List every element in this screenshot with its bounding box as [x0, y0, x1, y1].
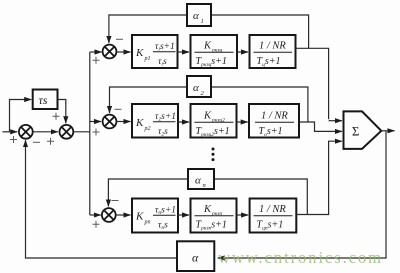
wire: K2 to RK2 — [178, 121, 189, 123]
row1 block3 text: 1/NR over T s+1 — [254, 41, 293, 68]
svg-text:1 / NR: 1 / NR — [259, 41, 286, 52]
svg-text:1: 1 — [201, 18, 204, 25]
wire: distribution vertical bus — [89, 52, 91, 215]
svg-text:р2: р2 — [144, 126, 151, 132]
wire: S1 output to distribution node — [73, 131, 90, 133]
row2 block2 text — [195, 111, 234, 138]
svg-text:K: K — [203, 41, 212, 52]
block K_pn PI controller — [132, 199, 178, 233]
svg-text:τ2s+1: τ2s+1 — [155, 112, 176, 123]
wire: NRn output right then up into sigma — [296, 141, 342, 214]
sign - at S0 bottom — [33, 141, 40, 143]
svg-text:α: α — [192, 251, 199, 265]
svg-text:K: K — [135, 47, 144, 59]
svg-text:Tцs+1: Tцs+1 — [257, 56, 281, 68]
wire: alpha output left then up into S0 — [26, 140, 178, 258]
wire: alpha2 output to R2 summer top — [110, 87, 188, 113]
node dots (vertical ellipsis) — [212, 148, 215, 162]
wire: Kn to RKn — [178, 214, 189, 216]
svg-text:τis: τis — [158, 57, 167, 68]
wire: NR1 output to down corner — [296, 48, 329, 119]
block 1/NR row3 — [250, 199, 297, 233]
svg-text:1 / NR: 1 / NR — [259, 204, 286, 215]
sign + at R3 left — [93, 221, 100, 228]
sign labels (drawn) — [10, 39, 123, 228]
svg-text:Tркзцs+1: Tркзцs+1 — [196, 56, 227, 68]
sign - at R3 top — [112, 200, 119, 202]
wire: RKn to NRn — [237, 214, 249, 216]
wire: alpha1 output to R1 summer top — [109, 15, 187, 43]
wire: NR2 output step down into sigma — [299, 122, 342, 131]
row1 block2 text: K_rkz/(T_rkz s+1) — [195, 41, 234, 68]
svg-text:2: 2 — [201, 90, 205, 97]
wire: RK2 to NR2 — [237, 121, 248, 123]
wire: row1 feedback tap up to alpha1 — [211, 15, 309, 48]
sign - at R1 top — [116, 38, 123, 40]
wire: main input into summer S0 — [3, 131, 18, 133]
block K_rk2 lag — [191, 104, 237, 138]
block alpha1 — [187, 4, 211, 26]
sign + at S1 input — [47, 138, 54, 145]
svg-text:рn: рn — [144, 220, 151, 226]
block K_p2 PI controller — [132, 104, 178, 138]
svg-text:τns+1: τns+1 — [155, 206, 176, 217]
summer S1 (circle with X) — [60, 125, 74, 139]
svg-text:α: α — [193, 82, 199, 94]
svg-text:www.cntronics.com: www.cntronics.com — [218, 248, 383, 267]
svg-text:Tркзns+1: Tркзns+1 — [196, 220, 227, 232]
svg-text:1 / NR: 1 / NR — [261, 111, 288, 122]
svg-text:Tркзц2s+1: Tркзц2s+1 — [196, 126, 230, 138]
wire: bus stub to row2 summer — [90, 121, 101, 123]
wire: K1 to RK1 — [178, 51, 190, 53]
block ts (derivative) — [33, 90, 58, 110]
wire: R1 summer to block K1 — [116, 51, 130, 53]
svg-text:K: K — [203, 111, 212, 122]
row3 block2 text — [195, 204, 234, 231]
svg-text:τis+1: τis+1 — [155, 42, 175, 53]
row3 block1 text — [135, 206, 176, 232]
summer R3 (circle with X) — [102, 208, 116, 222]
block 1/NR row1 — [250, 35, 296, 68]
row1 block1 text: K_p1 (t s+1)/(t s) — [135, 42, 176, 68]
wire: row3 feedback tap up to alphan — [214, 179, 307, 215]
wire: bus stub to row3 summer — [90, 214, 101, 216]
sign - at R2 top — [115, 108, 122, 110]
svg-text:Tцns+1: Tцns+1 — [257, 220, 284, 232]
wire: R3 summer to block Kn — [116, 214, 131, 216]
row2 block3 text — [255, 111, 294, 138]
block 1/NR row2 — [249, 104, 299, 138]
svg-text:n: n — [203, 182, 206, 189]
block K_rk1 lag — [191, 35, 238, 68]
sign + at S0 input — [10, 136, 17, 143]
sign + at R2 left — [93, 129, 100, 136]
block K_p1 PI controller — [132, 35, 178, 68]
summer S0 (circle with X) — [19, 125, 33, 139]
sign + at S1 top — [53, 113, 60, 120]
svg-text:τ2s: τ2s — [158, 127, 168, 138]
block alpha2 — [187, 76, 211, 97]
svg-text:α: α — [193, 10, 199, 22]
svg-text:K: K — [135, 211, 144, 223]
wire: RK1 to NR1 — [237, 51, 248, 53]
summer R2 (circle with X) — [103, 115, 117, 129]
wire: S0 to S1 — [33, 131, 58, 133]
svg-text:Tоs+1: Tоs+1 — [259, 126, 283, 138]
row2 block1 text — [135, 112, 176, 138]
sign + at R1 left — [93, 57, 100, 64]
svg-text:τns: τns — [158, 221, 168, 232]
wire: sigma output — [381, 130, 394, 132]
wire: bus stub to row1 summer — [90, 51, 102, 53]
block K_rkn lag — [191, 199, 237, 233]
wire: ts output down into summer S1 — [58, 100, 66, 124]
block alphan — [188, 169, 214, 189]
wire: row1 into sigma — [329, 120, 342, 122]
row3 block3 text — [254, 204, 293, 231]
svg-text:р1: р1 — [144, 56, 151, 62]
block alpha bottom — [177, 241, 214, 271]
wire: tap from input up to ts block — [10, 100, 32, 132]
wire: row2 feedback tap up to alpha2 — [211, 87, 308, 122]
wire: bottom feedback from output down and left through alpha — [218, 132, 386, 259]
sigma summation block — [344, 111, 382, 148]
svg-text:K: K — [135, 117, 144, 129]
summer R1 (circle with X) — [103, 45, 117, 59]
wire: alphan output to R3 summer top — [108, 179, 188, 206]
wire: R2 summer to block K2 — [116, 121, 130, 123]
svg-text:Σ: Σ — [352, 124, 359, 138]
svg-text:α: α — [195, 175, 201, 187]
svg-text:K: K — [203, 204, 212, 215]
svg-text:τs: τs — [39, 93, 48, 107]
